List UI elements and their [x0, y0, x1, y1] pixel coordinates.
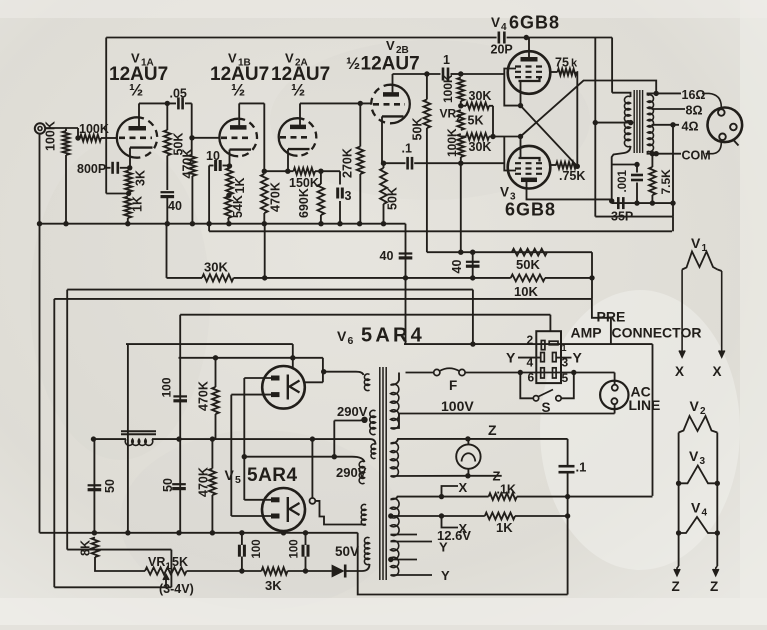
- svg-text:½: ½: [291, 81, 305, 100]
- svg-text:290V: 290V: [337, 404, 368, 419]
- svg-text:800P: 800P: [77, 162, 106, 176]
- node 16 ohm tap: [654, 91, 659, 96]
- node X line junctions: [439, 494, 444, 499]
- heater element V1: [682, 252, 717, 270]
- wire diode to 50V winding: [347, 564, 370, 571]
- svg-text:12AU7: 12AU7: [361, 54, 420, 75]
- wire V6 plate leads: [244, 377, 271, 379]
- svg-text:.1: .1: [402, 142, 412, 156]
- wire X line 2: [400, 515, 485, 517]
- wire bottom loop: [358, 533, 568, 595]
- grid bracket V3: [504, 137, 516, 171]
- svg-text:.1K: .1K: [497, 483, 516, 497]
- wire 16 ohm: [656, 92, 681, 94]
- resistor 3K cathode V1A: [125, 171, 132, 193]
- tube V3 plate: [521, 178, 537, 183]
- node VR2 top: [458, 103, 463, 108]
- wire 150K line: [264, 170, 293, 172]
- tube V4 cathode: [519, 78, 540, 82]
- node V1A cathode: [127, 165, 132, 170]
- resistor 10K: [473, 277, 511, 279]
- capacitor 1 coupling: [442, 68, 445, 81]
- svg-text:1K: 1K: [131, 196, 145, 212]
- wire to V1B grid: [192, 137, 220, 139]
- svg-text:10: 10: [206, 149, 220, 163]
- tube V3 envelope: [508, 146, 551, 189]
- svg-text:VR: VR: [148, 555, 165, 569]
- node 460 junction: [458, 250, 463, 255]
- wire wiper line: [54, 586, 171, 588]
- node grid line: [75, 135, 80, 140]
- tube V1A plate: [129, 126, 147, 131]
- svg-text:Y: Y: [506, 350, 516, 366]
- output transformer primary winding: [624, 96, 630, 147]
- switch S loop: [520, 373, 533, 399]
- resistor 270K: [359, 103, 361, 146]
- tube V1A grid dashes: [119, 137, 152, 140]
- wire V5 bottom pin: [283, 531, 285, 533]
- resistor 100K lower bias: [457, 134, 464, 157]
- wire 75K to .75K vertical: [576, 72, 579, 166]
- heater element V2: [679, 416, 718, 433]
- svg-text:30K: 30K: [204, 260, 228, 275]
- resistor 470K bleeder 2: [209, 469, 216, 496]
- node lamp bottom: [465, 473, 470, 478]
- node 75K/.75K junction: [575, 164, 580, 169]
- svg-text:100: 100: [251, 539, 263, 558]
- wire to AC top pin: [614, 373, 616, 385]
- grid bracket V4: [504, 69, 516, 75]
- capacitor 40 in drop: [399, 252, 413, 254]
- tube V2A cathode: [288, 148, 310, 150]
- second bus line: [209, 230, 672, 232]
- resistor 150K: [294, 168, 316, 175]
- svg-text:COM: COM: [682, 149, 711, 163]
- node 10K right: [589, 275, 594, 280]
- wire Y pin4: [518, 357, 541, 359]
- svg-text:100K: 100K: [44, 121, 58, 151]
- svg-text:5K: 5K: [468, 114, 484, 128]
- resistor 7.5K: [650, 151, 655, 156]
- tube V2B cathode: [382, 115, 404, 117]
- svg-text:50K: 50K: [386, 187, 400, 210]
- svg-text:16Ω: 16Ω: [682, 88, 706, 102]
- svg-text:75: 75: [555, 56, 569, 70]
- node cathode-cap junction: [381, 161, 386, 166]
- wire heater line L4a: [126, 343, 293, 345]
- svg-text:.001: .001: [617, 170, 629, 193]
- svg-text:5AR4: 5AR4: [361, 325, 425, 347]
- node lower 30K junction: [490, 134, 495, 139]
- resistor 8K: [92, 538, 99, 558]
- tube V6 plates: [271, 376, 280, 381]
- capacitor 20P in top rail: [498, 32, 501, 44]
- resistor 54K: [225, 197, 232, 219]
- svg-text:1K: 1K: [233, 178, 247, 194]
- node 470K top: [262, 169, 267, 174]
- wire 50 cap line: [93, 439, 95, 533]
- tube V5 heater: [287, 497, 289, 522]
- resistor 1K below 3K: [124, 197, 131, 219]
- tube V2A plate: [290, 125, 306, 130]
- svg-text:k: k: [571, 58, 578, 70]
- wire heater drop right: [67, 549, 171, 551]
- wire 100V line: [399, 413, 615, 415]
- svg-text:470K: 470K: [197, 381, 211, 411]
- node V1B grid junction: [189, 135, 194, 140]
- capacitor 3: [339, 171, 341, 184]
- capacitor 800P feedback: [106, 167, 110, 169]
- resistor 30K upper: [461, 105, 466, 107]
- svg-text:470K: 470K: [197, 467, 211, 497]
- output transformer primary top entry: [612, 93, 630, 97]
- wire V2-V4 right rail: [716, 433, 718, 567]
- wire V1 X leads: [681, 270, 683, 358]
- node 3K/1K junction: [126, 191, 131, 196]
- capacitor 40 second: [472, 252, 474, 278]
- tube V1B plate: [230, 125, 247, 130]
- node primary center tap feed: [593, 120, 598, 125]
- wire feedback drop from 4 ohm: [672, 125, 674, 217]
- node V2A cathode junction: [285, 169, 290, 174]
- svg-text:2: 2: [457, 113, 462, 123]
- svg-text:V: V: [386, 38, 395, 53]
- svg-text:20P: 20P: [491, 43, 513, 57]
- node 50K load top: [424, 71, 429, 76]
- wire plate bus A: [243, 378, 245, 500]
- resistor 50K dropping: [512, 249, 547, 256]
- svg-text:40: 40: [450, 260, 464, 274]
- wire heater line L2: [54, 298, 592, 300]
- node 30K line junction: [262, 275, 267, 280]
- svg-text:100K: 100K: [445, 128, 459, 157]
- svg-text:7.5K: 7.5K: [659, 169, 673, 195]
- wire input jack down to ground bus and PSU: [39, 134, 41, 533]
- node feedback junction: [670, 200, 675, 205]
- node V3 cathode junction: [518, 134, 523, 139]
- svg-text:V: V: [691, 500, 701, 516]
- wire Z stub: [468, 475, 502, 477]
- tube V2A envelope: [279, 118, 298, 156]
- svg-text:100K: 100K: [441, 74, 455, 103]
- wire V5 cathode takeoff: [311, 439, 313, 498]
- resistor 690K: [320, 171, 322, 184]
- tube V4 envelope: [508, 51, 551, 94]
- ground rail bottom: [40, 532, 358, 534]
- preamp connector box: [536, 331, 561, 383]
- svg-text:Z: Z: [672, 579, 680, 594]
- resistor 30K feedback: [167, 277, 203, 279]
- svg-text:4Ω: 4Ω: [682, 120, 699, 134]
- tube V5 plates: [271, 497, 280, 502]
- svg-text:V: V: [691, 235, 701, 251]
- svg-text:.75K: .75K: [559, 169, 585, 183]
- wire .05 down to V1B grid: [191, 103, 193, 154]
- svg-text:(3-4V): (3-4V): [159, 582, 194, 596]
- resistor 100K horizontal to V1A grid: [80, 135, 101, 142]
- wire B+ vertical from top rail: [594, 38, 596, 217]
- svg-text:50V: 50V: [335, 544, 359, 559]
- wire plate bus B: [230, 395, 232, 516]
- tube V3 grids: [515, 162, 543, 164]
- node rail 278 to 10K: [470, 275, 475, 280]
- capacitor 35P: [617, 197, 620, 209]
- node 40 cap top: [470, 250, 475, 255]
- wire to V4 grid bracket: [461, 73, 505, 75]
- svg-text:1K: 1K: [496, 520, 513, 535]
- winding Z: [391, 443, 399, 477]
- node 100K top: [458, 71, 463, 76]
- input jack: [35, 123, 45, 133]
- wire Z line: [400, 438, 568, 440]
- resistor .75K: [550, 164, 556, 166]
- heater element V4: [679, 517, 718, 533]
- tube V4 plate: [521, 57, 538, 62]
- resistor 100K vertical at input: [65, 128, 67, 131]
- node primary bottom / 35P rail: [609, 198, 614, 203]
- choke core bars: [121, 430, 156, 432]
- wire heater line L4b to AC: [404, 343, 653, 345]
- tube V5 envelope: [262, 488, 305, 531]
- output transformer primary bottom lead: [612, 146, 631, 201]
- tube V6 heater: [287, 375, 289, 400]
- resistor 30K lower: [461, 136, 466, 138]
- svg-text:V: V: [500, 185, 509, 200]
- winding 12.6V: [391, 498, 400, 535]
- svg-text:Z: Z: [493, 469, 501, 484]
- svg-text:8K: 8K: [79, 540, 93, 556]
- wire rectifier rail 1: [179, 357, 323, 359]
- wire main drop 405: [405, 224, 407, 344]
- wire V2-V4 left rail: [678, 433, 680, 567]
- tube V2B envelope: [391, 85, 410, 124]
- potentiometer VR2 5K: [457, 110, 464, 130]
- svg-text:Z: Z: [488, 422, 497, 438]
- rail2 to 290V winding a: [370, 439, 376, 444]
- svg-text:1: 1: [443, 53, 450, 67]
- wire VR1 wiper: [165, 575, 167, 588]
- wire heater line L1 left drop: [66, 290, 68, 550]
- winding 100V primary: [391, 384, 399, 429]
- tube V1B envelope: [219, 119, 238, 157]
- svg-text:Z: Z: [710, 579, 718, 594]
- tube V1A envelope: [117, 117, 137, 157]
- svg-text:50K: 50K: [516, 257, 540, 272]
- heater element V3: [679, 466, 718, 484]
- svg-text:690K: 690K: [297, 188, 311, 218]
- svg-text:40: 40: [168, 199, 182, 213]
- wire V1B plate bracket to direct coupling: [239, 102, 264, 104]
- tube V1B grid dashes: [221, 137, 252, 140]
- wire Z arrows: [677, 566, 679, 576]
- svg-text:PRE: PRE: [597, 309, 626, 325]
- svg-text:5K: 5K: [172, 555, 188, 569]
- capacitor 100 bias a: [241, 533, 243, 545]
- node 270K top: [358, 101, 363, 106]
- crossing wire V4 cathode to lower node: [521, 106, 578, 167]
- wire V5 plate leads: [244, 499, 271, 501]
- capacitor 50 filter b: [172, 483, 186, 485]
- svg-text:100V: 100V: [441, 398, 474, 414]
- capacitor .05 coupling: [177, 97, 180, 109]
- wire feedback top rail: [106, 37, 496, 39]
- svg-text:CONNECTOR: CONNECTOR: [612, 325, 702, 341]
- wire B+ drop to preamp connector: [591, 252, 593, 299]
- fuse F: [434, 369, 440, 375]
- wire lower link rails: [595, 216, 673, 218]
- resistor 100K upper bias: [457, 78, 464, 102]
- node bus drop: [403, 275, 408, 280]
- svg-text:30K: 30K: [469, 89, 492, 103]
- svg-text:3: 3: [345, 189, 352, 203]
- svg-text:F: F: [449, 378, 457, 393]
- node 4 ohm feedback tap: [670, 122, 675, 127]
- wire jack to grid network: [45, 127, 78, 129]
- svg-text:AMP: AMP: [571, 325, 602, 341]
- wire 50K dropping line: [427, 251, 592, 253]
- svg-text:5: 5: [235, 474, 241, 486]
- wire VR1 to 3K line: [187, 570, 262, 572]
- output transformer secondary winding: [648, 95, 654, 152]
- svg-text:4: 4: [501, 22, 507, 33]
- svg-text:LINE: LINE: [629, 397, 661, 413]
- node 690K top: [318, 169, 323, 174]
- svg-text:270K: 270K: [341, 148, 355, 178]
- svg-text:X: X: [459, 480, 468, 495]
- wire top rail to output transformer primary top: [611, 38, 613, 93]
- wire plate line to .05 cap: [139, 102, 176, 104]
- svg-text:V: V: [225, 467, 235, 483]
- svg-text:10K: 10K: [514, 284, 538, 299]
- wire 30K line: [166, 224, 168, 278]
- resistor 50K V2B cathode load: [383, 163, 385, 168]
- svg-text:Y: Y: [439, 540, 448, 555]
- svg-text:1: 1: [562, 343, 567, 353]
- connector pins: [541, 341, 545, 350]
- svg-text:100: 100: [289, 539, 301, 558]
- svg-text:3K: 3K: [265, 578, 282, 593]
- node V1B cathode: [227, 163, 232, 168]
- svg-text:.1: .1: [576, 460, 587, 475]
- capacitor .1 line filter: [559, 465, 575, 468]
- resistor 1K cathode V1B: [226, 168, 233, 195]
- svg-text:V: V: [491, 15, 500, 30]
- wire 100K chain bottom down to 50K line: [460, 163, 462, 252]
- resistor 75K: [550, 71, 557, 73]
- svg-text:100K: 100K: [79, 122, 109, 136]
- capacitor .1 coupling: [384, 162, 406, 164]
- svg-text:X: X: [459, 521, 468, 536]
- capacitor 100 first filter: [173, 395, 187, 397]
- fuse line: [406, 372, 434, 374]
- svg-text:3: 3: [700, 456, 706, 467]
- wire 8 ohm: [652, 108, 686, 110]
- tube V1A cathode: [130, 146, 153, 148]
- node V4 plate on rail: [524, 35, 529, 40]
- tube V4 grids: [515, 65, 543, 67]
- svg-text:3K: 3K: [134, 170, 148, 186]
- output transformer core: [633, 90, 635, 153]
- 35P rail: [612, 202, 673, 204]
- svg-text:.05: .05: [170, 87, 187, 101]
- svg-text:470K: 470K: [181, 149, 195, 179]
- winding 5V V6: [364, 374, 369, 391]
- svg-text:X: X: [675, 364, 684, 379]
- tube V1B cathode: [230, 148, 252, 150]
- capacitor 10 cathode bypass V1B: [209, 165, 213, 167]
- svg-text:X: X: [713, 364, 722, 379]
- svg-text:54K: 54K: [231, 195, 245, 218]
- svg-text:6: 6: [348, 335, 354, 347]
- wire V2A plate to V2B grid: [300, 102, 371, 104]
- resistor 3K bias: [262, 567, 288, 574]
- node lower 100K bottom: [458, 161, 463, 166]
- crossing wire V3 cathode to upper line: [521, 81, 657, 137]
- speaker connector: [708, 108, 743, 143]
- winding Y: [391, 541, 399, 577]
- svg-text:½: ½: [129, 81, 143, 100]
- svg-text:8Ω: 8Ω: [686, 104, 703, 118]
- wire Y pin3: [556, 357, 571, 359]
- svg-text:40: 40: [380, 249, 394, 263]
- wire V2B plate line: [393, 73, 441, 75]
- svg-text:Y: Y: [441, 568, 450, 583]
- svg-text:½: ½: [231, 81, 245, 100]
- wire 290V lower line: [244, 456, 352, 458]
- tube V2B plate: [383, 92, 399, 97]
- svg-text:4: 4: [702, 508, 708, 519]
- svg-text:V: V: [689, 448, 699, 464]
- svg-text:½: ½: [346, 54, 360, 73]
- resistor 50K plate load V1A: [166, 103, 168, 130]
- choke winding: [125, 439, 153, 445]
- node 5V winding top: [321, 369, 326, 374]
- winding 50V bias: [364, 537, 369, 564]
- capacitor .001: [612, 164, 637, 166]
- svg-text:VR: VR: [440, 107, 457, 121]
- svg-text:Y: Y: [573, 350, 583, 366]
- svg-text:6GB8: 6GB8: [509, 13, 560, 33]
- svg-text:V: V: [337, 328, 347, 344]
- capacitor 100 bias b: [305, 533, 307, 545]
- node switch taps: [518, 370, 523, 375]
- winding 290V a: [371, 444, 375, 459]
- resistor 470K grid leak V1B: [189, 155, 196, 177]
- AC line connector: [600, 381, 628, 409]
- svg-text:100: 100: [160, 377, 174, 397]
- wire inner line L3: [180, 314, 550, 316]
- node V4 cathode junction: [518, 103, 523, 108]
- tube V2B grid dashes: [373, 103, 405, 106]
- wire X stub 1: [442, 486, 459, 497]
- capacitor 50 filter a: [88, 484, 102, 486]
- svg-text:30K: 30K: [469, 140, 492, 154]
- tube V3 cathode top: [519, 158, 540, 162]
- wire feedback left drop: [105, 38, 107, 194]
- wire heater line L1: [67, 289, 473, 291]
- winding 290V b: [370, 410, 376, 434]
- wire rectifier rail 2 with choke: [94, 438, 127, 440]
- winding 290V c: [359, 461, 364, 483]
- wire V6 top pin: [292, 344, 294, 367]
- wire 264 vertical: [264, 224, 266, 278]
- svg-text:50K: 50K: [411, 118, 425, 141]
- wire 10 cap to bus: [208, 166, 210, 232]
- diode bias rectifier: [332, 565, 345, 578]
- wire V6 heater line: [305, 381, 323, 383]
- svg-text:150K: 150K: [289, 176, 319, 190]
- ground bus of preamp: [40, 223, 406, 225]
